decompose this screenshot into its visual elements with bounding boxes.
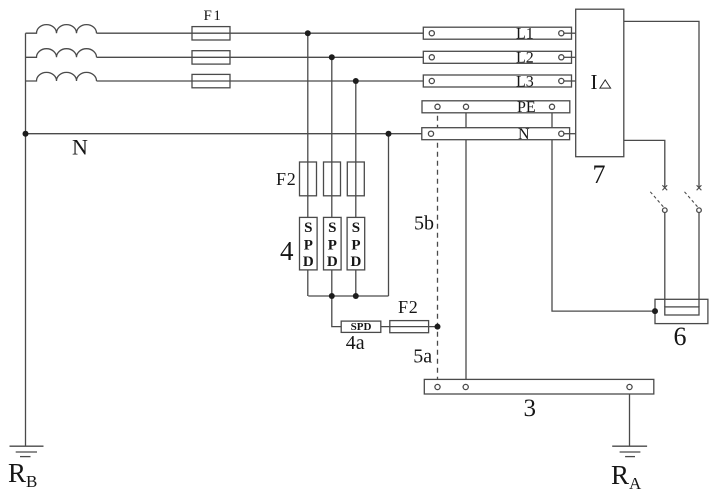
svg-text:RB: RB [8, 458, 37, 490]
svg-text:F1: F1 [204, 8, 223, 24]
svg-text:6: 6 [674, 322, 687, 351]
svg-text:S: S [352, 220, 360, 236]
svg-text:P: P [304, 237, 313, 253]
terminal bar3 1 [435, 384, 440, 389]
fuse F2 pole 3 [347, 162, 364, 196]
svg-text:3: 3 [524, 395, 537, 422]
wire SPD column 2 [331, 57, 333, 296]
wire dashed conductor 5b/5a [437, 107, 439, 380]
fuse F1 pole 1 [192, 27, 230, 40]
wire N [26, 133, 422, 135]
wire SPD 4a to F2 to node [381, 326, 438, 328]
inductor L1 [26, 25, 97, 34]
wire PE conductor to bar 3 [465, 107, 467, 380]
symbol delta triangle [600, 80, 611, 88]
svg-text:PE: PE [517, 99, 536, 116]
switch contact left x-tip [662, 185, 667, 190]
svg-text:N: N [518, 126, 530, 143]
wire L1 [97, 32, 424, 34]
switch blade left (dashed) [650, 192, 663, 207]
fuse F2 pole 1 [300, 162, 317, 196]
svg-text:5b: 5b [414, 213, 434, 235]
terminal L1 left [429, 31, 434, 36]
wire RCD top output [624, 21, 699, 187]
junction N tap [386, 131, 392, 137]
terminal bar3 2 [463, 384, 468, 389]
wire L2 [97, 56, 424, 58]
wire PE conductor to device 6 [552, 107, 655, 311]
switch blade right (dashed) [685, 192, 698, 207]
junction device 6 input [652, 308, 658, 314]
switch contact right x-tip [697, 185, 702, 190]
device 6 outer box [655, 299, 708, 323]
terminal L1 right [559, 31, 564, 36]
busbar L2 [423, 51, 571, 63]
wire bus to SPD 4a [332, 296, 341, 327]
svg-text:5a: 5a [413, 346, 432, 368]
SPD 4a box [341, 321, 381, 332]
fuse F2 pole 2 [324, 162, 341, 196]
switch fixed contact right [697, 208, 702, 213]
wire N bar to RCD [561, 133, 575, 135]
terminal N right [559, 131, 564, 136]
svg-text:S: S [304, 220, 312, 236]
terminal L2 right [559, 55, 564, 60]
fuse F1 pole 2 [192, 51, 230, 64]
inductor L2 [26, 49, 97, 58]
svg-text:I: I [591, 70, 598, 94]
terminal L2 left [429, 55, 434, 60]
svg-text:4: 4 [280, 236, 294, 266]
svg-text:4a: 4a [346, 332, 365, 354]
switch fixed contact left [663, 208, 668, 213]
junction L3 tap [353, 78, 359, 84]
ground RB [10, 446, 44, 456]
wire RCD bottom output [624, 140, 665, 187]
svg-text:D: D [303, 254, 314, 270]
wire L3 bar to RCD [561, 80, 575, 82]
svg-text:F2: F2 [398, 297, 419, 317]
svg-text:D: D [327, 254, 338, 270]
junction bus col3 [353, 293, 359, 299]
wire switch left to device 6 [664, 213, 666, 307]
inductor L3 [26, 72, 97, 81]
wire SPD column 3 [355, 81, 357, 296]
terminal PE 2 [463, 104, 468, 109]
SPD 3 box [347, 217, 365, 270]
svg-text:P: P [351, 237, 360, 253]
svg-text:S: S [328, 220, 336, 236]
busbar L1 [423, 27, 571, 39]
svg-text:L2: L2 [516, 50, 534, 67]
svg-text:RA: RA [611, 460, 642, 490]
busbar PE [422, 101, 570, 113]
wire L1 bar to RCD [561, 32, 575, 34]
svg-text:7: 7 [593, 160, 606, 189]
terminal L3 left [429, 78, 434, 83]
junction L2 tap [329, 54, 335, 60]
ground RA [612, 446, 647, 456]
svg-text:L1: L1 [516, 26, 534, 43]
svg-text:F2: F2 [276, 169, 297, 189]
junction bus col2 [329, 293, 335, 299]
svg-text:P: P [328, 237, 337, 253]
svg-text:L3: L3 [516, 73, 534, 90]
terminal bar3 3 [627, 384, 632, 389]
junction N left rail [23, 131, 29, 137]
wire SPD column 1 [307, 33, 309, 296]
fuse F1 pole 3 [192, 74, 230, 87]
SPD 2 box [324, 217, 342, 270]
device 6 inner element [665, 307, 699, 315]
wire L2 bar to RCD [561, 56, 575, 58]
terminal PE 3 [549, 104, 554, 109]
busbar N [422, 128, 570, 140]
terminal L3 right [559, 78, 564, 83]
junction L1 tap [305, 30, 311, 36]
wire left vertical rail [25, 33, 27, 446]
terminal PE 1 [435, 104, 440, 109]
svg-text:D: D [350, 254, 361, 270]
wire switch right to device 6 [698, 213, 700, 307]
earthing busbar 3 [424, 379, 654, 394]
RCD box 7 [576, 9, 624, 157]
wire earth electrode RA [629, 394, 631, 446]
SPD 1 box [300, 217, 318, 270]
busbar L3 [423, 75, 571, 87]
svg-text:N: N [72, 135, 88, 160]
wire L3 [97, 80, 424, 82]
fuse F2 of 4a [390, 321, 429, 333]
wire SPD bus [308, 295, 388, 297]
wire N drop to SPD bus [388, 134, 390, 296]
junction node 5a [435, 324, 441, 330]
terminal N left [428, 131, 433, 136]
